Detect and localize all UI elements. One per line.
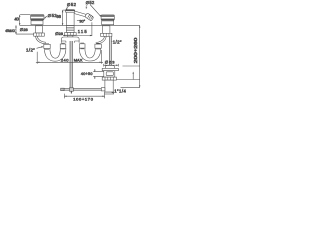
svg-text:40: 40 xyxy=(14,16,19,21)
stud tip xyxy=(70,91,72,93)
svg-text:200÷260: 200÷260 xyxy=(133,37,138,64)
left outer fitting xyxy=(44,44,50,48)
right outer fitting xyxy=(95,44,101,48)
dim 200-260 xyxy=(121,87,140,89)
left valve escutcheon xyxy=(31,20,43,25)
waste dome xyxy=(106,65,115,68)
svg-text:240: 240 xyxy=(61,57,69,62)
dim 240MAX xyxy=(36,52,38,64)
rod end cap xyxy=(61,88,64,91)
svg-text:∅52: ∅52 xyxy=(86,0,95,5)
right valve escutcheon xyxy=(102,20,114,25)
svg-text:∅28: ∅28 xyxy=(55,31,64,36)
tee port stubs xyxy=(61,41,79,43)
right shank nut xyxy=(101,33,112,36)
left inner fitting xyxy=(60,44,66,48)
left U pipe xyxy=(44,48,66,61)
dim 115 xyxy=(63,35,92,37)
center neck xyxy=(68,35,73,37)
dim 40-50 arrows xyxy=(94,69,96,79)
spout tube xyxy=(74,11,87,17)
svg-text:∅63: ∅63 xyxy=(105,60,116,65)
svg-text:∅28: ∅28 xyxy=(20,27,29,32)
svg-text:1/2”: 1/2” xyxy=(26,47,35,52)
central stud xyxy=(70,41,73,88)
spout column xyxy=(66,12,74,25)
deck line xyxy=(20,24,140,26)
right valve cap xyxy=(101,15,114,20)
svg-text:45MAX: 45MAX xyxy=(5,29,16,33)
right U pipe xyxy=(79,48,101,61)
svg-text:MAX: MAX xyxy=(74,57,83,62)
center shank xyxy=(66,26,74,33)
basin section right xyxy=(116,79,139,81)
dim 66 xyxy=(62,10,64,25)
waste locknut xyxy=(102,77,116,80)
left shank nut xyxy=(34,33,45,36)
svg-text:∅52: ∅52 xyxy=(67,2,77,7)
left S pipe xyxy=(37,36,46,42)
right shank xyxy=(102,26,110,34)
dim 45MAX xyxy=(15,25,17,34)
svg-text:1”1/4: 1”1/4 xyxy=(114,89,126,94)
center nut xyxy=(65,33,77,36)
left shank xyxy=(35,26,42,33)
tail end xyxy=(105,92,114,94)
left valve cap xyxy=(31,15,45,20)
svg-text:40÷50: 40÷50 xyxy=(81,72,93,76)
flexible hose xyxy=(109,36,111,87)
waste tail xyxy=(105,80,113,92)
basin section left xyxy=(93,72,104,77)
svg-text:1/2”: 1/2” xyxy=(113,40,122,45)
rod boss xyxy=(101,88,105,91)
dim 100-170 xyxy=(64,94,104,99)
dim 40 xyxy=(20,14,30,16)
svg-text:115: 115 xyxy=(78,29,88,34)
waste flange xyxy=(102,68,118,70)
30 deg note xyxy=(77,20,80,22)
svg-text:66: 66 xyxy=(56,14,61,19)
right S pipe xyxy=(96,36,105,42)
pop-up rod xyxy=(61,89,101,90)
waste body xyxy=(104,71,115,77)
svg-text:30°: 30° xyxy=(79,20,85,24)
aerator xyxy=(85,12,94,21)
center tee xyxy=(61,37,79,41)
waste body inner xyxy=(106,72,113,76)
spout cap xyxy=(65,10,74,13)
rod clamp xyxy=(69,88,73,91)
right inner fitting xyxy=(79,44,85,48)
svg-text:100÷170: 100÷170 xyxy=(73,97,94,102)
